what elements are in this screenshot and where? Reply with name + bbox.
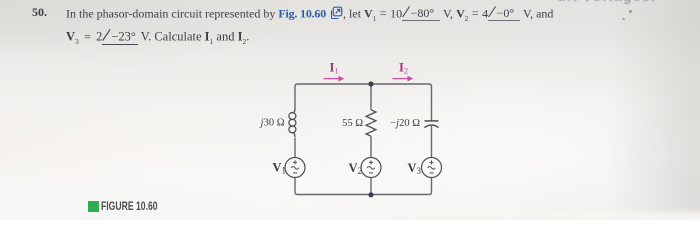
page remnant top right — [557, 0, 657, 4]
dust speck 2 — [622, 17, 626, 20]
figure caption green square — [88, 201, 99, 212]
figure caption text — [101, 202, 158, 214]
current arrow I1 — [324, 78, 340, 80]
svg-text:V3: V3 — [407, 161, 421, 176]
problem number 50 — [32, 6, 47, 18]
source V1 — [285, 158, 305, 178]
resistor 55 — [366, 110, 376, 136]
wire middle branch lower — [370, 178, 372, 195]
node bottom junction — [368, 192, 373, 197]
inductor j30 — [289, 108, 296, 138]
wire bottom rail with corners — [295, 178, 432, 195]
svg-text:V2: V2 — [348, 161, 362, 176]
problem text line 2 — [66, 29, 249, 45]
svg-text:I1: I1 — [330, 61, 339, 76]
svg-text:V1: V1 — [272, 161, 286, 176]
svg-text:I2: I2 — [399, 61, 408, 76]
wire left branch middle — [294, 138, 296, 158]
svg-text:55 Ω: 55 Ω — [342, 118, 363, 129]
svg-text:−j20 Ω: −j20 Ω — [390, 118, 420, 129]
source V2 — [361, 158, 381, 178]
current arrow I2 — [393, 78, 409, 80]
dust speck 1 — [628, 9, 632, 13]
source V3 — [422, 158, 442, 178]
wire top rail with corners — [295, 84, 432, 121]
wire middle branch middle — [370, 136, 372, 157]
node top junction — [368, 81, 373, 86]
capacitor -j20 — [425, 120, 439, 122]
svg-text:j30 Ω: j30 Ω — [259, 118, 285, 129]
wire right branch middle — [431, 126, 433, 158]
problem text line 1 — [66, 6, 553, 22]
wire middle branch upper — [370, 84, 372, 110]
